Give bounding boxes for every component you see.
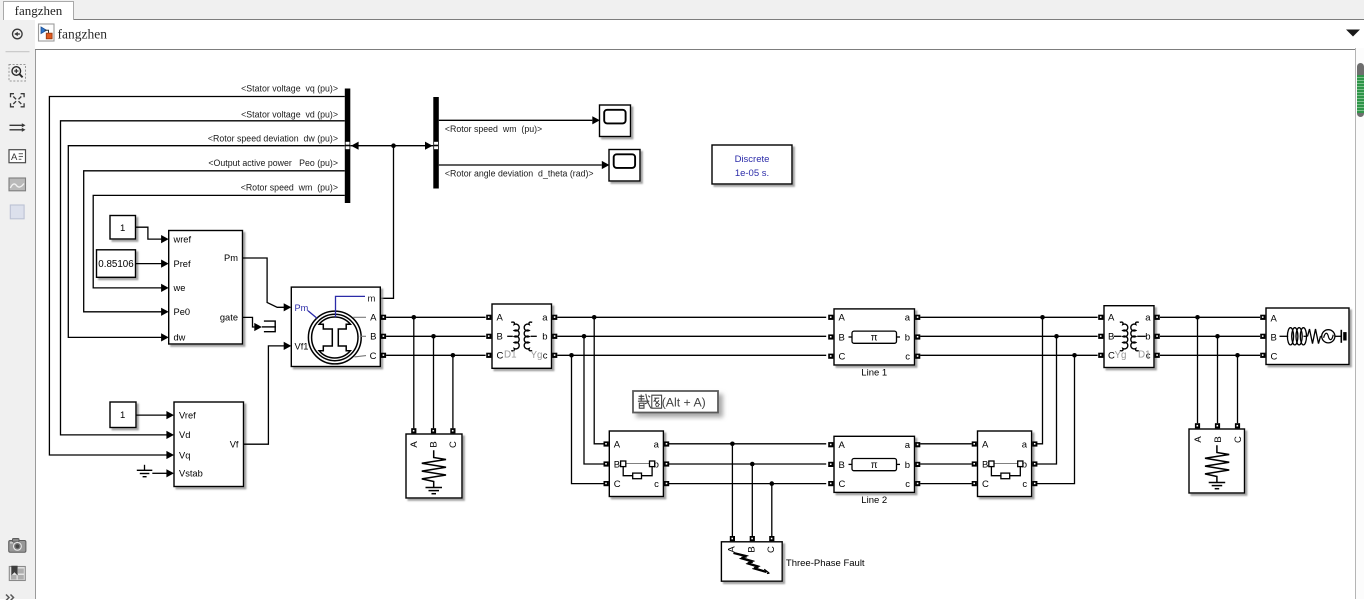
wire phase c Line1-T2: [920, 354, 1097, 356]
tab bar: [0, 0, 1364, 20]
svg-text:gate: gate: [220, 313, 238, 323]
toolbar library icon: [9, 566, 25, 580]
svg-text:wref: wref: [173, 234, 192, 244]
T1 port a right: [552, 315, 557, 320]
load block 2 (parallel RLC load): [1189, 429, 1245, 493]
load1 port A: [411, 428, 416, 433]
svg-text:c: c: [1022, 479, 1027, 490]
source port C: [1260, 353, 1265, 358]
machine m stub (blue): [336, 296, 366, 317]
svg-text:B: B: [1108, 332, 1114, 343]
wire phase a Line2-breaker2: [920, 443, 972, 445]
wire riser a breaker2: [1037, 317, 1043, 444]
svg-text:c: c: [905, 352, 910, 363]
svg-text:Pe0: Pe0: [174, 307, 191, 317]
ground symbol (Vstab): [144, 465, 146, 471]
junction b breaker1: [582, 334, 587, 339]
svg-text:D1: D1: [1138, 350, 1151, 361]
svg-text:A: A: [409, 441, 420, 448]
wire phase A breaker1-Line2: [669, 443, 826, 445]
left toolbar: [0, 19, 36, 600]
svg-text:a: a: [654, 439, 660, 450]
wire phase c T2-source: [1160, 354, 1260, 356]
T2 port B left: [1098, 334, 1103, 339]
toolbar viewer square icon: [10, 205, 24, 219]
svg-text:Yg: Yg: [531, 350, 543, 361]
machine port A: [381, 315, 386, 320]
wire phase a T1-Line1: [557, 316, 826, 318]
junction A load1: [412, 315, 417, 320]
Line 1 port a: [915, 315, 920, 320]
svg-text:C: C: [614, 479, 621, 490]
svg-text:Pm: Pm: [295, 303, 309, 313]
breaker B1 port B: [604, 461, 609, 466]
svg-text:c: c: [543, 351, 548, 362]
wire drop to load2 C: [1237, 355, 1239, 423]
wire drop c to breaker1 C: [572, 355, 604, 483]
svg-text:1: 1: [120, 223, 125, 234]
svg-text:dw: dw: [174, 333, 186, 343]
wire drop to load1 C: [452, 355, 454, 428]
breaker B2 port A: [972, 441, 977, 446]
svg-text:B: B: [747, 546, 758, 552]
svg-text:C: C: [1233, 436, 1244, 443]
load2 port B: [1215, 423, 1220, 428]
junction A fault: [730, 442, 735, 447]
svg-text:a: a: [542, 313, 548, 324]
junction a breaker1: [592, 315, 597, 320]
machine B label: [360, 335, 366, 337]
wire phase a T2-source: [1160, 316, 1260, 318]
scope 1 block: [600, 105, 631, 137]
breaker B1 port C: [604, 481, 609, 486]
svg-text:a: a: [1145, 313, 1151, 324]
load1 port B: [431, 428, 436, 433]
svg-text:a: a: [1022, 439, 1028, 450]
wire phase a Line1-T2: [920, 316, 1097, 318]
wire drop to load2 B: [1217, 336, 1219, 423]
powergui block (Discrete): [712, 145, 792, 184]
svg-text:Pm: Pm: [224, 253, 238, 263]
svg-text:b: b: [905, 460, 910, 471]
svg-text:(Alt + A): (Alt + A): [662, 396, 706, 410]
svg-text:B: B: [614, 459, 620, 470]
svg-text:Line 1: Line 1: [861, 368, 887, 379]
T1 port A left: [486, 315, 491, 320]
toolbar image icon: [9, 178, 26, 191]
wire const1 to wref: [136, 227, 162, 239]
breaker B1 port A: [604, 441, 609, 446]
breadcrumb dropdown arrow: [1346, 29, 1360, 36]
junction c breaker1: [569, 353, 574, 358]
svg-text:A: A: [727, 546, 738, 553]
wire vd feedback (bus selector out2 to exciter Vd): [61, 121, 345, 435]
svg-text:Vd: Vd: [179, 430, 190, 440]
Line 2 port a: [915, 442, 920, 447]
wire const to Pref: [136, 263, 162, 265]
wire drop to load2 A: [1197, 317, 1199, 423]
wire exciter Vf to machine Vf1: [244, 346, 285, 444]
svg-text:Three-Phase Fault: Three-Phase Fault: [786, 558, 865, 569]
Line 2 pi icon: [852, 459, 897, 471]
governor block (HTG): [169, 231, 243, 345]
svg-text:1e-05 s.: 1e-05 s.: [735, 168, 769, 179]
toolbar fit-to-view icon: [11, 93, 25, 106]
junction b riser: [1054, 334, 1059, 339]
toolbar back button: [12, 29, 22, 39]
T1 port B left: [486, 334, 491, 339]
breaker B2 port C: [972, 481, 977, 486]
breaker B2 switch icon: [994, 463, 1018, 465]
svg-text:B: B: [839, 460, 845, 471]
svg-text:a: a: [905, 440, 911, 451]
T1 port C left: [486, 353, 491, 358]
arrowhead Vq: [166, 451, 174, 459]
load1 resistor icon: [422, 450, 446, 487]
constant block 1 (wref): [110, 216, 136, 240]
breaker B2 port b: [1032, 461, 1037, 466]
wire phase B breaker1-Line2: [669, 463, 826, 465]
toolbar separator: [6, 50, 30, 52]
machine I-beam icon: [319, 317, 350, 358]
junction c riser: [1072, 353, 1077, 358]
simulink model badge icon: [38, 24, 54, 41]
Line 2 port C: [828, 481, 833, 486]
breaker B1 port a: [664, 441, 669, 446]
Line 1 port b: [915, 334, 920, 339]
svg-text:C: C: [839, 479, 846, 490]
T2 port C left: [1098, 353, 1103, 358]
T1 port c right: [552, 353, 557, 358]
T1 winding coils: [511, 322, 519, 351]
breaker B2 port a: [1032, 441, 1037, 446]
wire phase b Line1-T2: [920, 335, 1097, 337]
wire governor gate to terminator: [243, 317, 255, 327]
wire phase A machine-T1: [386, 316, 486, 318]
toolbar signal routing icon: [10, 125, 23, 130]
transformer T2 block: [1104, 306, 1154, 368]
arrowhead into bus selector 2: [425, 142, 433, 150]
junction B fault: [750, 462, 755, 467]
wire drop a to breaker1 A: [594, 317, 603, 444]
exciter block (excitation system): [174, 402, 244, 487]
junction a load2: [1195, 315, 1200, 320]
svg-text:b: b: [542, 332, 547, 343]
fault port B: [750, 536, 755, 541]
constant block 0.85106 (Pref): [97, 250, 136, 277]
bus selector 2 bar: [433, 97, 439, 189]
Line 2 port b: [915, 462, 920, 467]
fault port C: [769, 536, 774, 541]
svg-text:<Stator voltage vd (pu)>: <Stator voltage vd (pu)>: [241, 109, 338, 119]
svg-text:C: C: [839, 352, 846, 363]
svg-text:π: π: [871, 333, 878, 344]
svg-text:<Rotor angle deviation d_thet: <Rotor angle deviation d_theta (rad)>: [445, 169, 594, 179]
machine port C: [381, 353, 386, 358]
svg-text:<Rotor speed deviation dw (pu: <Rotor speed deviation dw (pu)>: [208, 134, 338, 144]
svg-text:Yg: Yg: [1115, 350, 1127, 361]
scope 2 block: [609, 150, 640, 182]
svg-text:π: π: [871, 460, 878, 471]
wire phase C machine-T1: [386, 354, 486, 356]
svg-text:B: B: [1271, 333, 1277, 344]
T2 winding coils: [1120, 322, 1128, 351]
screenshot tooltip: [633, 391, 718, 413]
svg-text:C: C: [497, 351, 504, 362]
Line 1 port C: [828, 354, 833, 359]
svg-text:B: B: [370, 332, 376, 343]
wire vq feedback (bus selector out1 to exciter Vq): [49, 97, 344, 456]
svg-text:C: C: [1271, 352, 1278, 363]
three-phase fault block: [721, 542, 782, 581]
breaker B1 port b: [664, 461, 669, 466]
Line 1 port A: [828, 315, 833, 320]
source port B: [1260, 334, 1265, 339]
wire const to Vref: [136, 414, 167, 416]
load2 port C: [1235, 423, 1240, 428]
arrowhead Vd: [166, 431, 174, 439]
right scrollbar: [1355, 48, 1364, 599]
svg-text:A: A: [1271, 314, 1278, 325]
svg-text:1: 1: [120, 410, 125, 421]
machine port B: [381, 334, 386, 339]
svg-text:we: we: [173, 283, 186, 293]
wire wm feedback (bus selector out5 to governor we): [93, 195, 345, 288]
three-phase source block: [1266, 308, 1349, 365]
breaker B2 port c: [1032, 481, 1037, 486]
wire to scope1: [439, 119, 593, 121]
svg-text:A: A: [982, 439, 989, 450]
junction a riser: [1040, 315, 1045, 320]
svg-text:fangzhen: fangzhen: [57, 26, 107, 41]
wire phase C breaker1-Line2: [669, 483, 826, 485]
wire phase b T1-Line1: [557, 335, 826, 337]
svg-text:C: C: [370, 351, 377, 362]
bus selector 1 bar: [345, 89, 351, 204]
arrowhead dw: [161, 333, 169, 341]
svg-text:A: A: [497, 313, 504, 324]
svg-text:Pref: Pref: [174, 259, 191, 269]
breadcrumb bar: [35, 19, 1364, 50]
wire drop to load1 B: [433, 336, 435, 428]
wire Peo feedback (bus selector out4 to governor Pe0): [84, 171, 345, 312]
wire phase c T1-Line1: [557, 354, 826, 356]
svg-text:Vf1: Vf1: [295, 341, 309, 351]
wire dw feedback (bus selector out3 to governor dw): [68, 146, 345, 338]
svg-text:0.85106: 0.85106: [98, 259, 134, 270]
svg-text:b: b: [905, 332, 910, 343]
junction b load2: [1215, 334, 1220, 339]
arrowhead we: [161, 284, 169, 292]
wire phase B machine-T1: [386, 335, 486, 337]
Line 1 port B: [828, 334, 833, 339]
svg-text:b: b: [1145, 332, 1150, 343]
svg-text:<Rotor speed wm (pu)>: <Rotor speed wm (pu)>: [241, 182, 338, 192]
svg-text:C: C: [766, 546, 777, 553]
wire riser b breaker2: [1037, 336, 1057, 464]
scrollbar thumb with green indicator: [1357, 63, 1364, 117]
wire riser c breaker2: [1037, 355, 1075, 483]
junction m-wire: [391, 143, 396, 148]
svg-text:A: A: [11, 152, 18, 163]
svg-text:A: A: [370, 313, 377, 324]
load2 port A: [1195, 423, 1200, 428]
svg-text:C: C: [448, 441, 459, 448]
Line 2 port B: [828, 462, 833, 467]
T2 port b right: [1155, 334, 1160, 339]
wire drop to fault C: [771, 484, 773, 537]
wire drop to fault A: [731, 444, 733, 536]
synchronous machine block: [291, 287, 380, 366]
junction C load1: [451, 353, 456, 358]
Line 2 port A: [828, 442, 833, 447]
junction c load2: [1235, 353, 1240, 358]
svg-text:A: A: [839, 313, 846, 324]
terminator (gate): [264, 321, 275, 332]
wire drop to load1 A: [413, 317, 415, 428]
junction B load1: [431, 334, 436, 339]
svg-text:A: A: [1108, 313, 1115, 324]
load1 port C: [450, 428, 455, 433]
breaker B1 port c: [664, 481, 669, 486]
load2 resistor icon: [1205, 445, 1229, 482]
svg-text:A: A: [1193, 436, 1204, 443]
Line 1 port c: [915, 354, 920, 359]
T1 port b right: [552, 334, 557, 339]
wire machine m output to bus selectors: [380, 146, 393, 299]
machine A label: [353, 316, 366, 318]
Line 1 pi icon: [852, 331, 897, 343]
machine C label: [355, 356, 367, 357]
source port A: [1260, 315, 1265, 320]
arrowhead into bus selector 1: [351, 142, 359, 150]
svg-text:Vref: Vref: [179, 410, 196, 420]
transformer T1 block: [492, 304, 552, 368]
svg-text:A: A: [839, 440, 846, 451]
T2 port A left: [1098, 315, 1103, 320]
wire governor Pm to machine: [243, 258, 285, 307]
T2 port c right: [1155, 353, 1160, 358]
svg-text:B: B: [497, 332, 503, 343]
svg-text:<Output active power Peo (pu: <Output active power Peo (pu)>: [208, 158, 338, 168]
svg-text:B: B: [839, 332, 845, 343]
fault lightning icon: [734, 552, 767, 572]
Line 1 block (pi section line): [834, 309, 915, 365]
svg-text:D1: D1: [504, 350, 517, 361]
svg-text:C: C: [982, 479, 989, 490]
constant block 1 (Vref): [110, 402, 136, 428]
fault port A: [730, 536, 735, 541]
arrowhead Pe0: [161, 308, 169, 316]
breaker B2 block (three-phase breaker): [978, 431, 1032, 497]
T2 port a right: [1155, 315, 1160, 320]
svg-text:Vq: Vq: [179, 450, 190, 460]
source impedance icon: [1280, 335, 1289, 337]
wire phase c Line2-breaker2: [920, 483, 972, 485]
svg-text:A: A: [614, 439, 621, 450]
svg-text:B: B: [429, 441, 440, 447]
toolbar overflow chevrons: [6, 594, 14, 600]
svg-text:c: c: [905, 479, 910, 490]
svg-text:Line 2: Line 2: [861, 495, 887, 506]
wire phase b T2-source: [1160, 335, 1260, 337]
toolbar camera icon: [9, 540, 26, 552]
load block 1 (parallel RLC load): [406, 434, 462, 498]
svg-text:Vf: Vf: [230, 439, 239, 449]
breaker B1 block (three-phase breaker): [609, 431, 663, 497]
active tab fangzhen: [3, 1, 74, 20]
Line 2 block (pi section line): [834, 436, 915, 492]
wire to scope2: [439, 164, 602, 166]
breaker B1 switch icon: [626, 463, 650, 465]
junction C fault: [770, 481, 775, 486]
Line 2 port c: [915, 481, 920, 486]
machine rotor circle: [308, 311, 361, 364]
wire phase b Line2-breaker2: [920, 463, 972, 465]
svg-text:c: c: [654, 479, 659, 490]
svg-text:B: B: [982, 459, 988, 470]
svg-text:m: m: [368, 294, 376, 305]
svg-text:Discrete: Discrete: [735, 154, 770, 165]
toolbar zoom tool icon: [9, 64, 26, 81]
svg-text:<Rotor speed wm (pu)>: <Rotor speed wm (pu)>: [445, 124, 542, 134]
svg-text:<Stator voltage vq (pu)>: <Stator voltage vq (pu)>: [241, 84, 338, 94]
svg-text:B: B: [1213, 436, 1224, 442]
toolbar annotation icon: [9, 149, 26, 162]
breaker B2 port B: [972, 461, 977, 466]
wire drop b to breaker1 B: [584, 336, 604, 464]
wire drop to fault B: [751, 464, 753, 536]
svg-text:Vstab: Vstab: [179, 469, 203, 479]
svg-text:a: a: [905, 313, 911, 324]
